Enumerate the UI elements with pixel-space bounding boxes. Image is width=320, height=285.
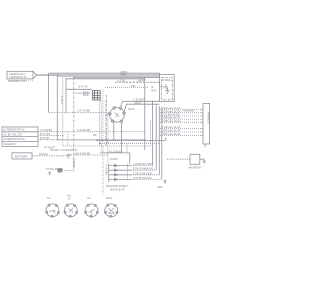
alternator table bbox=[2, 127, 38, 146]
svg-text:A1 25 BLK2: A1 25 BLK2 bbox=[109, 150, 123, 153]
wire: alt row1 dotted extension bbox=[58, 131, 145, 133]
wire: vertical drop left B bbox=[56, 75, 58, 140]
ignition switch S1 bbox=[109, 107, 126, 123]
solenoid wire text bbox=[46, 168, 63, 171]
label on alt row1 ext bbox=[77, 129, 91, 132]
wire bundle top row 4 bbox=[74, 76, 160, 78]
wire: branch y89 bbox=[66, 88, 92, 90]
alternator wire labels bbox=[40, 129, 52, 140]
ground right of box bbox=[200, 159, 206, 163]
svg-text:HARNESS 1P: HARNESS 1P bbox=[10, 75, 27, 79]
headlight label text bbox=[8, 72, 27, 83]
ground at solenoid bbox=[48, 172, 51, 176]
label RD small bbox=[93, 134, 97, 137]
engine block E1 bbox=[160, 75, 175, 102]
svg-text:AB.PL: AB.PL bbox=[128, 108, 135, 111]
label switch wires bbox=[128, 98, 146, 111]
svg-text:AB.PL: AB.PL bbox=[135, 102, 142, 105]
svg-text:B 2T YEL: B 2T YEL bbox=[40, 133, 51, 136]
wire labels top bundle bbox=[118, 70, 146, 83]
wire bundle top row 1 bbox=[49, 72, 160, 74]
svg-text:BVA: BVA bbox=[152, 90, 157, 93]
wire: dotted vertical x127 bbox=[126, 143, 128, 153]
wire: dotted y143.3 bbox=[100, 142, 160, 144]
wire: dotted vertical x99.4 bbox=[98, 101, 100, 147]
connector circle view 2 bbox=[64, 204, 78, 217]
svg-text:ALTERNATOR AC: ALTERNATOR AC bbox=[3, 128, 24, 132]
svg-text:AC BK YEL 12V: AC BK YEL 12V bbox=[3, 132, 22, 136]
connector vertical text bbox=[207, 112, 210, 124]
dotted label row y150 bbox=[50, 149, 78, 152]
svg-text:MODULE 4P: MODULE 4P bbox=[110, 189, 125, 192]
battery wire labels bbox=[39, 152, 91, 156]
wire bundle top row 5 bbox=[66, 78, 145, 80]
svg-text:A 25 RD BK 16GA: A 25 RD BK 16GA bbox=[133, 163, 153, 166]
svg-text:A1Bu: A1Bu bbox=[120, 73, 127, 77]
module row labels bbox=[133, 163, 153, 180]
label F row bbox=[76, 92, 91, 95]
connector circle view 1 bbox=[46, 204, 60, 217]
ground in engine bbox=[165, 87, 169, 94]
label above branch bbox=[79, 86, 89, 89]
starter solenoid blob bbox=[58, 169, 63, 173]
wire: solenoid to module bbox=[62, 170, 74, 172]
wire: harness drop 4 bbox=[161, 107, 163, 179]
battery wire with fuse bbox=[32, 155, 67, 157]
wire: vertical x107.9 bbox=[107, 114, 109, 164]
wire: headlight to harness bbox=[37, 74, 58, 76]
wire: switch to top line bbox=[121, 101, 160, 107]
label above right of battery bbox=[44, 147, 56, 150]
svg-text:34P: 34P bbox=[131, 86, 136, 88]
stub under connector bbox=[204, 144, 206, 147]
engine side labels bbox=[151, 86, 157, 93]
svg-text:MOD: MOD bbox=[83, 94, 89, 97]
svg-text:25 BLK: 25 BLK bbox=[110, 158, 118, 161]
main connector P1 bbox=[202, 103, 210, 144]
wire: dotted horizontal y87 bbox=[105, 86, 149, 88]
relay K1 dense block bbox=[93, 91, 101, 100]
junction dots bbox=[48, 73, 160, 144]
net label rotated bbox=[60, 96, 63, 105]
harness rows to main connector bbox=[160, 110, 203, 136]
svg-text:H BU wire 16 GA: H BU wire 16 GA bbox=[162, 133, 181, 136]
svg-text:HR METER: HR METER bbox=[189, 167, 202, 170]
wire: upper branch y82 bbox=[115, 81, 160, 83]
svg-text:KL.: KL. bbox=[47, 196, 52, 200]
svg-text:E WH wire 16 GA: E WH wire 16 GA bbox=[162, 120, 181, 123]
wire: vertical up from solenoid line bbox=[73, 78, 75, 171]
wire: rect B left edge bbox=[65, 79, 67, 113]
svg-text:D 25 BK/WH 16G: D 25 BK/WH 16G bbox=[133, 177, 152, 180]
svg-text:A1 RD/WH: A1 RD/WH bbox=[105, 164, 108, 176]
svg-text:CHASSIS: CHASSIS bbox=[183, 110, 194, 113]
svg-text:20A FUSE RD: 20A FUSE RD bbox=[75, 152, 91, 155]
alternator table text bbox=[3, 128, 25, 146]
fuse F1 bbox=[67, 154, 71, 156]
svg-text:DAC,: DAC, bbox=[106, 196, 113, 200]
svg-text:HARNESS: HARNESS bbox=[207, 112, 210, 124]
svg-text:REVERSE SAFETY: REVERSE SAFETY bbox=[106, 185, 129, 188]
svg-text:A1 BU2: A1 BU2 bbox=[60, 96, 63, 105]
wire: inner dotted loop bbox=[63, 120, 151, 146]
svg-text:MAGNETO: MAGNETO bbox=[3, 142, 16, 146]
wire: vertical drop left A bbox=[48, 73, 50, 112]
wire: y140 branch right bbox=[96, 140, 162, 142]
label above connector bbox=[183, 110, 194, 113]
module M1 top line bbox=[100, 153, 130, 164]
wire: harness drop 1 bbox=[152, 101, 154, 165]
rotated tiny label bbox=[74, 159, 76, 167]
svg-text:ALTERNATOR DC: ALTERNATOR DC bbox=[3, 137, 25, 141]
wire: switch bottom drops bbox=[114, 122, 122, 153]
svg-text:Dt.: Dt. bbox=[88, 196, 92, 200]
wire: harness drop 3 bbox=[158, 106, 160, 175]
stub below fuse bbox=[67, 156, 69, 159]
wire: dashed horizontal to switch bbox=[49, 111, 110, 113]
wire: dotted vertical x67.8 bbox=[67, 132, 69, 146]
svg-text:A 4Y BLAB: A 4Y BLAB bbox=[40, 129, 52, 132]
wire: dotted horizontal under headlight bbox=[8, 80, 34, 82]
module rows with diodes bbox=[109, 164, 131, 181]
label on dashed line bbox=[77, 110, 91, 113]
alternator wires bbox=[38, 131, 57, 133]
module caption bbox=[106, 185, 129, 192]
svg-text:C.25.9678: C.25.9678 bbox=[133, 98, 146, 102]
wire: switch right line bbox=[124, 104, 160, 112]
module row wires right bbox=[131, 166, 162, 180]
battery B1 bbox=[12, 153, 32, 159]
svg-text:1P 4MAG: 1P 4MAG bbox=[162, 79, 172, 82]
wire: dotted vertical C bbox=[62, 78, 64, 146]
wire bundle top row 3 bbox=[57, 75, 159, 77]
svg-text:BY4 .06: BY4 .06 bbox=[79, 86, 89, 89]
ground under module row4 bbox=[163, 179, 167, 183]
small box right X1 bbox=[190, 154, 200, 164]
svg-text:M 4P BK: M 4P BK bbox=[40, 137, 50, 140]
wire: dotted vertical x101 bbox=[100, 101, 102, 153]
wire: dotted vertical x105.8 bbox=[105, 100, 107, 146]
svg-text:RD: RD bbox=[93, 134, 97, 137]
svg-text:RD 6GA: RD 6GA bbox=[39, 153, 48, 156]
svg-text:GRD: GRD bbox=[157, 186, 163, 189]
engine inner label bbox=[162, 79, 172, 82]
connector circle view 4 bbox=[104, 204, 118, 217]
svg-text:B 25 GR WH8 16G: B 25 GR WH8 16G bbox=[133, 168, 153, 171]
wire: switch left bbox=[106, 113, 110, 115]
svg-text:PT 4 BATT: PT 4 BATT bbox=[44, 147, 56, 150]
harness row labels bbox=[162, 107, 181, 136]
svg-text:C 25 YL BK 16GA: C 25 YL BK 16GA bbox=[133, 172, 153, 175]
headlight connector J1 bbox=[7, 71, 37, 79]
wire: rect B right edge bbox=[144, 78, 146, 150]
wire: harness drop 2 bbox=[155, 104, 157, 170]
wire: dotted verticals under relay bbox=[102, 89, 104, 195]
svg-text:RD/WH: RD/WH bbox=[74, 159, 76, 167]
module M1 body bbox=[108, 164, 110, 182]
svg-text:79: 79 bbox=[151, 86, 154, 89]
rotated label module left bbox=[105, 164, 108, 176]
connector circle view 3 bbox=[85, 204, 99, 217]
stub near row1 end bbox=[162, 138, 166, 141]
wire: dash-dot vertical at switch left bbox=[105, 95, 107, 146]
spark plug bbox=[160, 84, 166, 89]
relay label bbox=[83, 92, 89, 98]
label on dotted y87 bbox=[131, 86, 136, 88]
svg-text:BATTERY: BATTERY bbox=[15, 154, 28, 158]
wire bundle top row 2 bbox=[37, 74, 160, 76]
wire: rect B bottom edge bbox=[57, 139, 145, 141]
